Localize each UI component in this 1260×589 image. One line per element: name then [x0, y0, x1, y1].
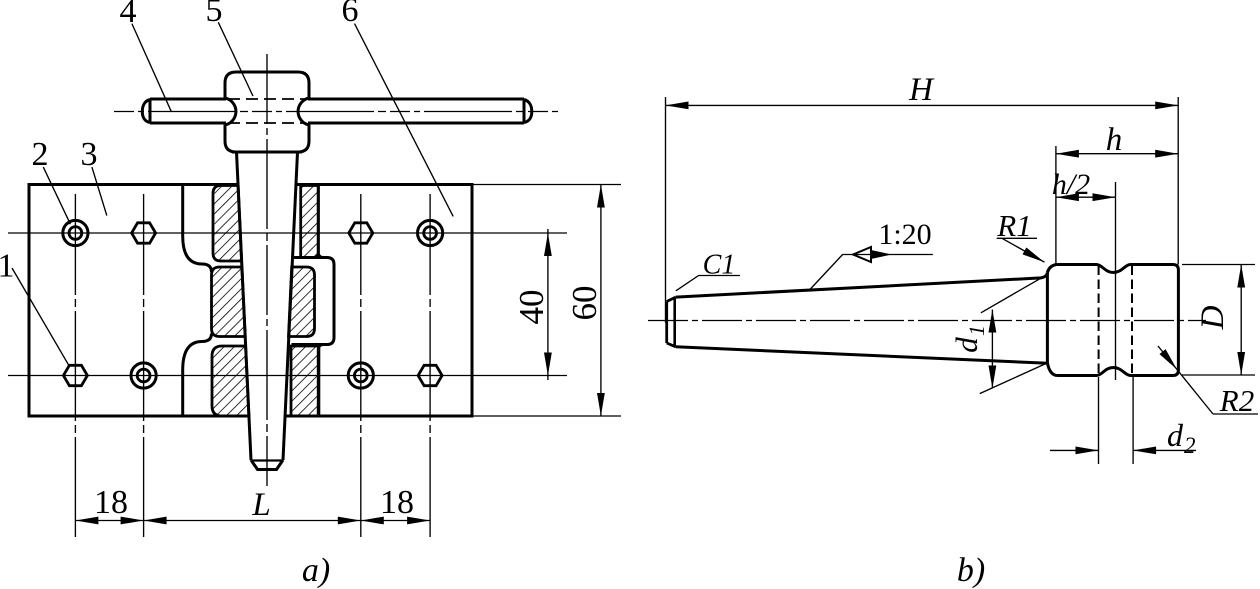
C1 underline and leader	[676, 276, 740, 291]
svg-text:1: 1	[0, 248, 15, 285]
svg-text:d: d	[949, 337, 984, 353]
d2 extension left	[1098, 377, 1100, 464]
fillet plate edge to flange top	[318, 253, 323, 258]
d2 dimension	[1050, 449, 1099, 451]
H extension left	[665, 97, 667, 323]
ring hole top-left	[63, 220, 88, 245]
svg-text:D: D	[1195, 305, 1231, 330]
h/2 dimension	[1056, 196, 1116, 198]
handle bar left dome cap	[142, 100, 150, 123]
H extension right / face extension	[1177, 97, 1179, 265]
pin big-end shoulder line	[1046, 272, 1049, 362]
fillet plate edge to flange bottom	[318, 345, 323, 350]
leader 5	[218, 22, 253, 96]
ring hole bottom-right	[348, 363, 373, 388]
hole centerline x=361	[360, 194, 362, 537]
bushing section top-left	[213, 186, 242, 262]
handle bar left end face	[149, 99, 152, 123]
svg-text:2: 2	[32, 136, 49, 173]
svg-text:18: 18	[94, 484, 128, 521]
hole row centerline top	[8, 232, 567, 234]
bushing section mid-left	[212, 267, 246, 337]
handle bar hidden line bottom inside body	[228, 122, 306, 124]
h extension left	[1055, 146, 1057, 265]
ring hole top-right-2	[418, 220, 443, 245]
svg-text:b): b)	[957, 552, 985, 589]
bushing section mid-right	[289, 267, 315, 337]
tap shank left edge	[237, 152, 252, 460]
handle bar top edge left	[150, 98, 226, 101]
arrow 18 right / L left	[121, 517, 144, 525]
right plate left edge lower	[317, 350, 320, 417]
D dimension	[1240, 265, 1242, 376]
leader 3	[92, 167, 107, 216]
dimension line 18 L 18	[75, 520, 430, 522]
svg-text:40: 40	[512, 290, 551, 325]
svg-text:L: L	[251, 487, 270, 523]
svg-text:d: d	[1167, 417, 1184, 453]
d1 text	[949, 325, 989, 353]
right plate left edge upper	[317, 185, 320, 253]
taper symbol solid arrow	[871, 250, 892, 259]
svg-text:R2: R2	[1219, 383, 1254, 418]
svg-text:4: 4	[120, 0, 137, 30]
dimension 60 vertical	[600, 185, 602, 417]
wrench body outline with side notches	[225, 72, 309, 152]
hex nut top-right	[349, 223, 373, 243]
hex nut bottom-left	[63, 365, 87, 385]
taper symbol open triangle	[853, 247, 871, 262]
svg-text:H: H	[908, 72, 935, 108]
svg-text:60: 60	[565, 286, 604, 321]
handle bar hidden line top inside body	[228, 98, 306, 100]
hidden line groove left	[1098, 266, 1100, 375]
hole centerline x=143	[143, 194, 145, 537]
d2 extension right	[1132, 377, 1134, 464]
d1 oblique extension bottom	[980, 363, 1048, 394]
h/2 extension right	[1115, 182, 1117, 380]
left plate right edge top with fillet step	[183, 185, 212, 273]
tap shank tip	[251, 460, 283, 470]
centerline vertical axis of shank	[266, 54, 268, 486]
extension line bottom edge right	[472, 415, 621, 417]
bushing section bottom-right	[291, 346, 319, 416]
leader 4	[132, 24, 172, 112]
hole centerline x=75	[74, 194, 76, 537]
leader 2	[43, 167, 70, 224]
handle bar top edge right	[308, 98, 524, 101]
handle bar right end face	[523, 99, 526, 123]
right plate outline	[285, 185, 472, 417]
bushing section top-right	[301, 186, 319, 258]
small end chamfer edge line	[673, 297, 676, 346]
arrow 18 left	[75, 517, 98, 525]
R2 underline	[1213, 413, 1258, 415]
handle bar right dome cap	[524, 100, 532, 123]
svg-text:6: 6	[342, 0, 359, 29]
handle bar bottom edge left	[150, 122, 226, 125]
H dimension	[666, 104, 1179, 106]
arrow 18 far right	[407, 517, 430, 525]
hidden line groove right	[1131, 266, 1133, 375]
ring hole bottom-left-2	[131, 363, 156, 388]
svg-text:1: 1	[964, 325, 989, 336]
arrow L right / 18 left	[338, 517, 361, 525]
centerline horizontal axis of handle bar	[114, 111, 558, 113]
chamfer bottom	[667, 343, 676, 347]
R2 leader with arrow	[1158, 346, 1213, 414]
leader 1	[12, 268, 69, 365]
bushing flange outline right	[292, 258, 335, 345]
D extension top	[1182, 264, 1255, 266]
dimension 40 vertical	[547, 229, 549, 380]
svg-text:a): a)	[302, 552, 330, 589]
pin bottom taper edge	[676, 347, 1048, 363]
svg-text:3: 3	[81, 136, 98, 173]
chamfer top	[667, 297, 676, 301]
handle bar bottom edge right	[308, 122, 524, 125]
tap shank right edge	[283, 152, 298, 460]
neck fillet R1 top	[1047, 265, 1056, 273]
d1 oblique extension top	[981, 274, 1048, 312]
h dimension	[1056, 153, 1178, 155]
taper 1:20 leader	[809, 255, 933, 291]
neck fillet bottom	[1047, 363, 1056, 376]
svg-text:1:20: 1:20	[878, 218, 931, 251]
svg-text:18: 18	[380, 484, 414, 521]
left plate right edge bottom with fillet step	[183, 334, 212, 417]
svg-text:2: 2	[1184, 433, 1196, 458]
extension line top edge right	[472, 184, 621, 186]
R1 leader with arrow	[1002, 238, 1045, 262]
R1 underline	[997, 237, 1037, 239]
small end face	[665, 302, 668, 344]
hole row centerline bottom	[8, 375, 567, 377]
tap shank tip chamfer line	[251, 459, 283, 461]
D extension bottom	[1182, 374, 1255, 376]
body bottom edge across shank	[232, 151, 302, 154]
left plate outline	[29, 185, 249, 417]
hex nut top-left-2	[132, 223, 156, 243]
hole centerline x=430	[429, 194, 431, 537]
head outline with groove	[1057, 265, 1179, 376]
pin top taper edge	[676, 272, 1048, 297]
leader 6	[355, 24, 454, 217]
bushing section bottom-left	[212, 346, 249, 416]
svg-text:h: h	[1106, 122, 1123, 158]
svg-text:h/2: h/2	[1052, 168, 1090, 201]
axis centerline	[648, 320, 1206, 322]
hex nut bottom-right-2	[418, 365, 442, 385]
d1 dimension	[991, 310, 993, 389]
